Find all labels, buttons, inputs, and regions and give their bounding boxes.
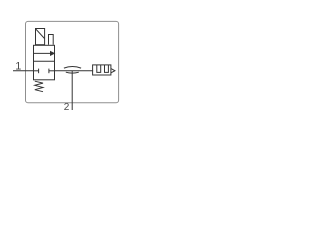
svg-text:2: 2 [64, 102, 70, 113]
valve body V1 [34, 45, 55, 80]
solenoid coil Y1 [36, 29, 45, 45]
blocked ports (closed position) [33, 69, 54, 74]
flow path arrow (open position) [34, 52, 55, 56]
label 1 [15, 61, 21, 73]
silencer outlet nozzle [111, 69, 115, 73]
svg-text:1: 1 [15, 61, 21, 73]
port 1 line [13, 70, 33, 72]
venturi nozzle lower arc [66, 71, 79, 74]
enclosure frame [26, 21, 119, 102]
venturi nozzle upper arc [64, 66, 81, 68]
label 2 [64, 102, 70, 113]
silencer U1 [93, 65, 111, 75]
pilot box [49, 35, 54, 45]
return spring [35, 81, 43, 92]
wire: main flow line [54, 70, 93, 72]
port 2 line [71, 71, 73, 110]
